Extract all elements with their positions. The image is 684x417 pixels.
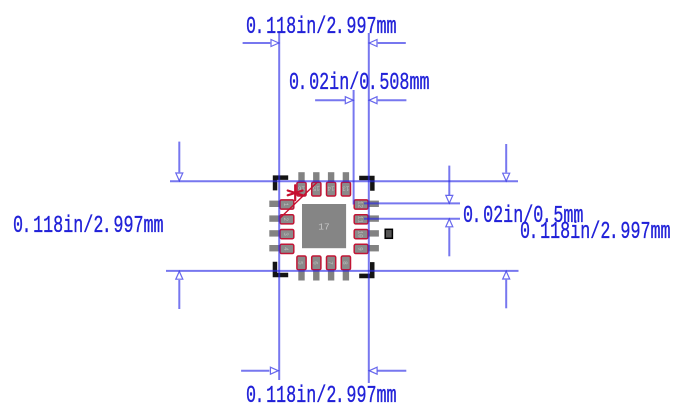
svg-text:6: 6 xyxy=(311,261,318,265)
svg-text:7: 7 xyxy=(326,261,333,265)
svg-text:10: 10 xyxy=(356,230,363,238)
svg-text:1: 1 xyxy=(282,203,289,207)
svg-text:9: 9 xyxy=(356,247,363,251)
svg-text:17: 17 xyxy=(318,222,329,233)
svg-text:4: 4 xyxy=(282,247,289,251)
svg-text:13: 13 xyxy=(342,184,350,191)
svg-text:3: 3 xyxy=(282,232,289,236)
svg-text:8: 8 xyxy=(341,261,348,265)
svg-text:14: 14 xyxy=(327,184,335,191)
svg-text:12: 12 xyxy=(356,201,363,209)
svg-text:2: 2 xyxy=(282,217,289,221)
svg-text:5: 5 xyxy=(297,261,304,265)
svg-text:11: 11 xyxy=(356,216,363,224)
